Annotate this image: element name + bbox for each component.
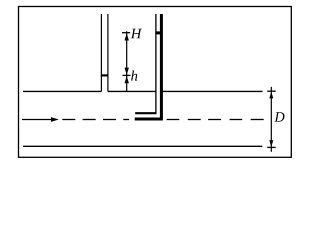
centerline dash 1 — [62, 119, 75, 121]
pipe top wall (left segment) — [23, 90, 101, 92]
D up arrowhead — [269, 92, 273, 99]
D top tick — [267, 90, 276, 92]
border frame — [19, 7, 292, 158]
label H — [131, 29, 142, 39]
D down arrowhead — [269, 140, 273, 147]
H/h dimension shaft — [126, 31, 128, 91]
pitot tube inner (thin) wall: vertical + mouth top — [135, 14, 156, 113]
pipe bottom wall — [23, 145, 262, 147]
H top tick — [122, 32, 130, 34]
centerline dash 5 — [167, 119, 180, 121]
centerline dash 9 — [251, 119, 264, 121]
piezometer tube right wall — [107, 14, 109, 91]
centerline dash 2 — [83, 119, 96, 121]
centerline dash 4 (short) — [123, 119, 129, 121]
D bottom tick — [267, 146, 276, 148]
piezometer water level tick — [101, 74, 109, 76]
flow arrow shaft — [22, 119, 53, 121]
D dimension shaft — [270, 87, 272, 152]
H up arrowhead — [125, 33, 129, 40]
pipe top wall (right segment) — [162, 90, 263, 92]
h down arrowhead (above tick) — [125, 68, 129, 75]
pipe top wall (middle segment) — [108, 90, 156, 92]
piezometer tube left wall — [100, 14, 102, 91]
centerline dash 6 — [188, 119, 201, 121]
h up arrowhead (below tick) — [125, 76, 129, 83]
pitot tube outer (thick) wall: vertical + mouth bottom — [135, 14, 162, 119]
flow arrowhead — [51, 117, 59, 122]
label h — [131, 70, 137, 80]
centerline dash 8 — [230, 119, 243, 121]
centerline dash 7 — [208, 119, 221, 121]
pitot water level tick — [155, 31, 160, 34]
label D — [274, 112, 284, 121]
pitot tube inner mouth line thicker part — [135, 113, 156, 115]
centerline dash 3 — [103, 119, 116, 121]
h tick — [123, 74, 131, 76]
